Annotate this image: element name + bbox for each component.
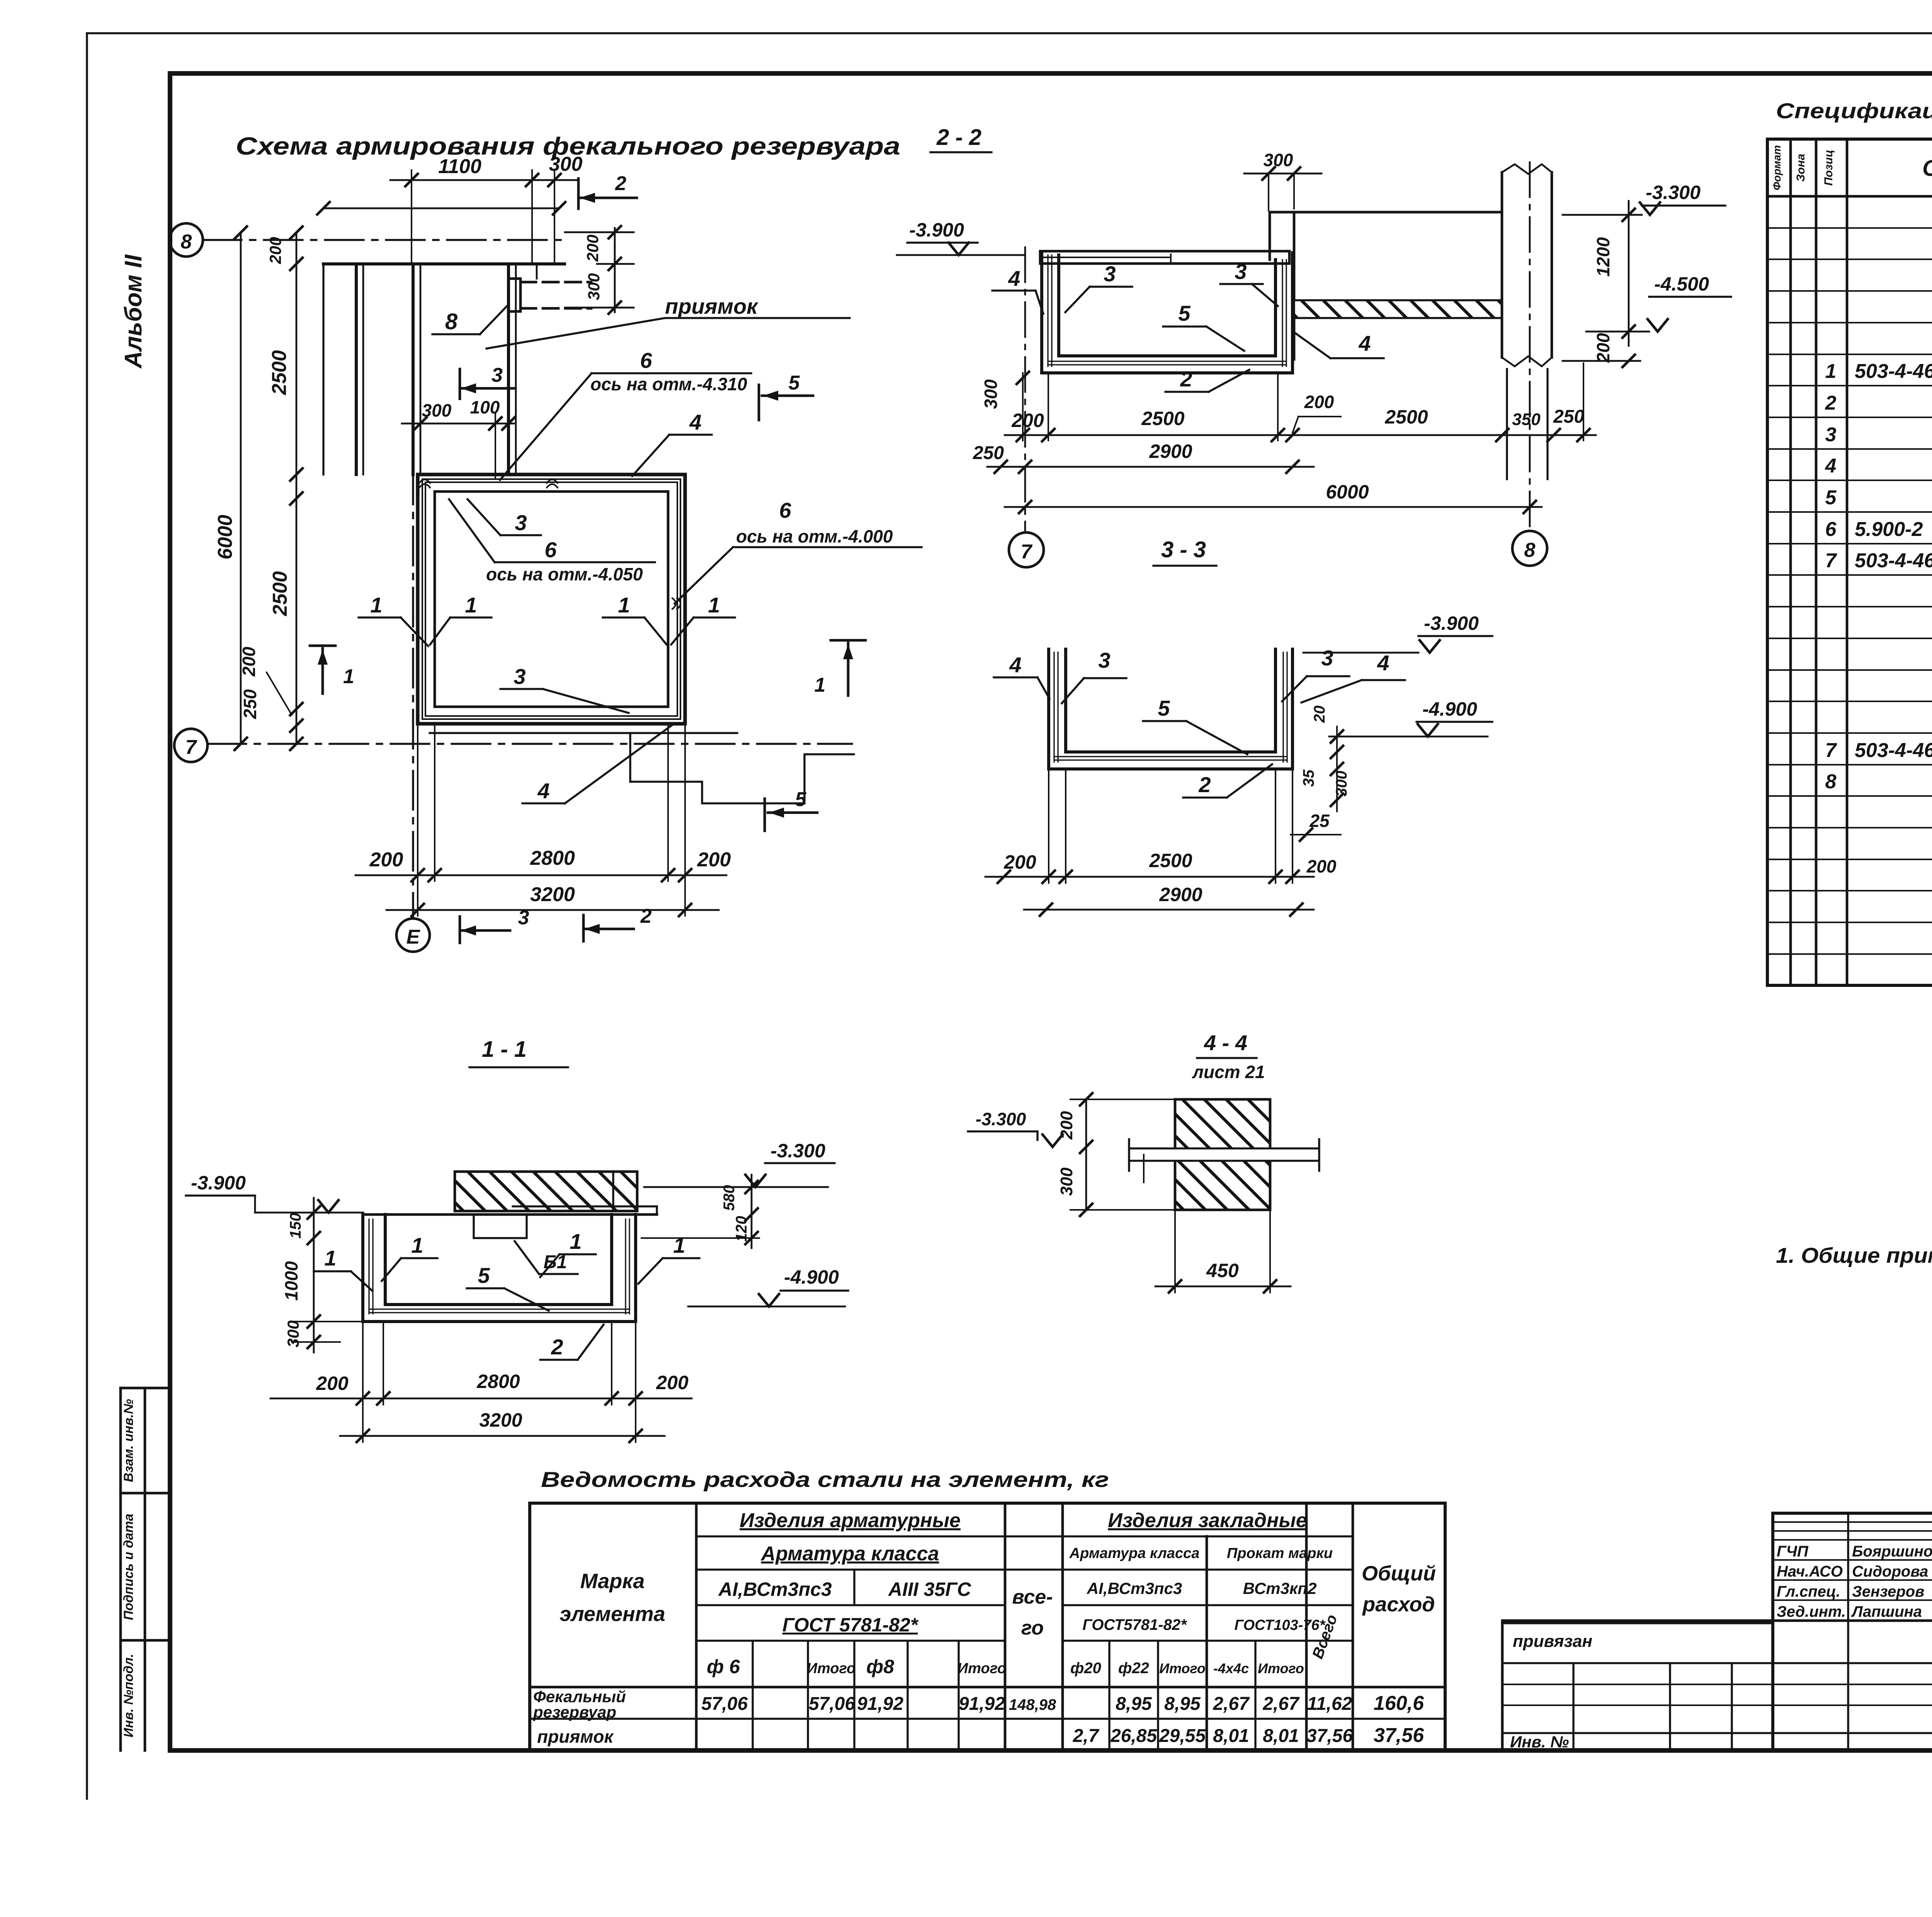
svg-text:1100: 1100 [438,155,481,178]
svg-text:3: 3 [1104,262,1116,286]
svg-text:1: 1 [1825,360,1837,383]
opening notch sec 1-1 [474,1214,527,1238]
svg-text:1: 1 [618,593,630,617]
svg-text:2900: 2900 [1149,441,1192,462]
label 3 plan lower [500,664,629,713]
svg-text:ось на отм.-4.000: ось на отм.-4.000 [736,526,893,546]
svg-text:3: 3 [1098,648,1110,672]
level mark -4.900 sec 1-1 [688,1266,848,1306]
svg-text:8: 8 [181,231,192,253]
svg-text:148,98: 148,98 [1009,1696,1056,1713]
label 3 sec 2-2 right [1220,259,1278,306]
svg-text:-3.900: -3.900 [1424,612,1479,634]
svg-text:2500: 2500 [1384,406,1428,428]
svg-text:7: 7 [185,736,197,759]
svg-text:580: 580 [721,1185,738,1211]
label 4 plan top right [632,410,712,476]
dims 580/120 sec 1-1 [641,1175,759,1248]
label 3 plan upper [468,499,541,535]
svg-text:4: 4 [1825,455,1837,477]
svg-text:29,55: 29,55 [1159,1726,1206,1746]
hatched pier sec 4-4 [1175,1099,1270,1210]
svg-text:1200: 1200 [1593,237,1613,277]
dimension 200/2800/200 sec 1-1 [270,1322,692,1405]
svg-text:Позиц: Позиц [1822,150,1835,186]
svg-text:Арматура класса: Арматура класса [1069,1545,1200,1561]
pit walls plan [323,264,565,475]
label 6 ось на отм.-4.050 [449,499,655,584]
svg-text:приямок: приямок [537,1726,614,1747]
axis circle 7 sec 2-2 [1009,532,1044,567]
svg-text:Спецификация элементов монол: Спецификация элементов монолитного фекал… [1776,99,1932,123]
svg-text:Итого: Итого [807,1660,855,1677]
svg-text:Взам. инв.№: Взам. инв.№ [121,1399,136,1482]
svg-text:1: 1 [465,593,477,617]
label 4 sec 2-2 left [992,266,1043,314]
section mark 5 plan upper [759,372,813,420]
svg-text:26,85: 26,85 [1110,1726,1157,1746]
svg-text:7: 7 [1825,549,1837,572]
svg-text:2500: 2500 [1149,850,1192,871]
hatched block sec 1-1 [455,1172,637,1211]
svg-text:2800: 2800 [476,1371,520,1392]
channel walls sec 3-3 [1049,649,1293,769]
svg-text:1: 1 [673,1233,685,1257]
svg-text:2800: 2800 [530,847,575,869]
svg-text:4: 4 [1008,266,1020,291]
svg-text:250: 250 [240,689,260,719]
label 2 sec 2-2 [1165,367,1249,392]
svg-text:4 - 4: 4 - 4 [1204,1031,1247,1055]
svg-text:3: 3 [518,907,529,929]
labels 1 sec 1-1 [314,1229,699,1291]
dimension 2900 sec 3-3 [1024,884,1314,916]
label 6 ось на отм.-4.000 [675,498,922,604]
svg-text:6: 6 [640,348,652,373]
label приямок [486,294,850,349]
svg-text:2: 2 [640,905,652,927]
svg-text:5.900-2: 5.900-2 [1855,518,1923,541]
label 3 sec 3-3 right [1282,646,1349,701]
title block grid [1502,1513,1932,1750]
svg-text:6: 6 [779,498,791,522]
svg-text:91,92: 91,92 [857,1694,903,1714]
dimension 300 left sec 2-2 [981,372,1029,409]
svg-text:200: 200 [1304,392,1334,412]
steel table grid [530,1503,1445,1750]
svg-text:ГОСТ 5781-82*: ГОСТ 5781-82* [782,1614,919,1636]
svg-text:4: 4 [1009,653,1021,677]
svg-text:Общий: Общий [1362,1562,1436,1585]
svg-text:4: 4 [1358,331,1371,356]
svg-text:-4.900: -4.900 [784,1266,839,1288]
axis circle 8 sec 2-2 [1512,531,1547,566]
dimension 200/300 right of pit [565,226,634,314]
small dims 20/35/300 sec 3-3 [1300,706,1350,811]
level mark -3.300 sec 2-2 [1563,182,1725,215]
spec header texts [1771,145,1932,191]
svg-text:ГЧП: ГЧП [1777,1543,1809,1560]
axis line 7 plan [207,743,852,745]
svg-text:200: 200 [697,849,731,871]
svg-text:200: 200 [1593,333,1613,363]
label 4 sec 3-3 left [994,653,1049,699]
svg-text:6: 6 [544,538,557,562]
svg-text:200: 200 [316,1373,349,1394]
svg-text:1000: 1000 [281,1261,301,1301]
svg-text:7: 7 [1825,739,1837,762]
level mark -3.300 sec 1-1 [644,1140,835,1187]
dimension 300 top of 2-2 [1244,150,1321,211]
section mark 5 plan lower [765,788,817,831]
dimension 200/2800/200 plan bottom [355,724,731,881]
tank section 2-2 walls [1042,253,1293,373]
svg-text:91,92: 91,92 [959,1694,1005,1714]
dimension row 200/2500/200 sec 3-3 [985,769,1337,883]
label 4 plan bottom [522,725,672,803]
svg-text:300: 300 [422,400,452,420]
dimension 1100/300 top [390,153,582,264]
svg-text:ГОСТ5781-82*: ГОСТ5781-82* [1082,1616,1187,1633]
svg-text:Итого: Итого [1159,1660,1206,1676]
svg-text:2500: 2500 [269,571,291,616]
svg-text:Е: Е [406,926,420,948]
svg-text:200: 200 [1003,851,1036,873]
top slab sec 1-1 [363,1206,657,1214]
svg-text:1. Общие примечания смотри: 1. Общие примечания смотри лист 21. [1776,1243,1932,1267]
svg-text:-4.500: -4.500 [1654,273,1709,295]
svg-text:20: 20 [1311,706,1328,723]
tank 2-2 mesh lines [1048,255,1286,366]
svg-text:200: 200 [1011,410,1044,431]
svg-text:ф 6: ф 6 [707,1656,740,1677]
svg-text:расход: расход [1362,1593,1435,1616]
spec table grid [1767,139,1932,985]
section mark 1 arrow left [310,646,354,694]
section title 3-3 [1153,537,1216,566]
svg-text:Подпись и дата: Подпись и дата [121,1514,136,1620]
svg-text:37,56: 37,56 [1374,1724,1424,1747]
svg-text:Обозначение: Обозначение [1922,156,1932,181]
dimension 25 sec 3-3 [1291,811,1341,841]
svg-text:элемента: элемента [560,1602,665,1626]
svg-text:Лапшина: Лапшина [1851,1603,1922,1620]
svg-text:-4.900: -4.900 [1422,698,1477,720]
svg-text:Ведомость расхода стали на: Ведомость расхода стали на элемент, кг [541,1467,1109,1492]
section title 4-4 [1192,1031,1265,1082]
svg-text:ось на отм.-4.310: ось на отм.-4.310 [590,374,747,394]
svg-text:7: 7 [1021,541,1033,563]
svg-text:200: 200 [266,237,284,264]
tank 2-2 top cover [1040,251,1289,264]
svg-text:6000: 6000 [1326,481,1369,503]
dimension line plan second top [317,202,565,214]
svg-text:2 - 2: 2 - 2 [936,125,981,150]
svg-text:150: 150 [287,1213,304,1239]
svg-text:1: 1 [815,674,826,696]
svg-text:5: 5 [1178,301,1190,325]
svg-text:35: 35 [1300,769,1317,787]
svg-text:2500: 2500 [268,350,291,395]
svg-text:-3.900: -3.900 [909,219,964,241]
svg-text:5: 5 [795,788,807,811]
section title 1-1 [469,1037,568,1067]
level mark -4.500 sec 2-2 [1586,273,1731,332]
embedded item MH2 plan [509,279,591,311]
svg-text:5: 5 [1825,486,1837,509]
svg-text:-4х4с: -4х4с [1213,1660,1249,1676]
dimension 3200 plan bottom [386,724,719,916]
svg-text:2500: 2500 [1141,408,1184,429]
svg-text:2: 2 [1198,772,1211,797]
svg-text:Итого: Итого [957,1660,1006,1677]
section title 2-2 [930,125,992,152]
signature table [1773,1513,1932,1750]
svg-text:Зона: Зона [1794,154,1807,182]
level mark -3.900 sec 1-1 [186,1172,363,1213]
axis circle 7 plan [174,729,207,762]
left dims 150/1000/300 sec 1-1 [281,1198,365,1352]
hatched slab 2-2 [1294,300,1502,318]
tank walls sec 1-1 [363,1214,636,1322]
svg-text:2: 2 [551,1335,563,1359]
label 2 sec 3-3 [1183,764,1272,798]
dimension 3200 sec 1-1 [340,1322,665,1442]
dimension 300/100 plan [402,397,515,479]
svg-text:Альбом II: Альбом II [120,254,147,369]
svg-text:8,95: 8,95 [1116,1694,1152,1714]
svg-text:3: 3 [492,364,503,386]
dimension stack 200/2500/200/2500/200/250 vertical [239,226,303,750]
svg-text:300: 300 [1333,771,1350,797]
svg-text:ось на отм.-4.050: ось на отм.-4.050 [486,564,643,584]
dimension 200 sec 2-2 right [1563,333,1640,367]
svg-text:АI,ВСт3пс3: АI,ВСт3пс3 [718,1579,832,1600]
svg-text:200: 200 [583,235,602,262]
tank walls plan [418,475,685,724]
svg-text:11,62: 11,62 [1307,1694,1352,1714]
svg-text:3: 3 [1825,424,1837,446]
svg-text:5: 5 [478,1263,490,1288]
svg-text:6000: 6000 [214,515,236,560]
svg-text:3: 3 [514,664,526,689]
svg-text:АI,ВСт3пс3: АI,ВСт3пс3 [1087,1579,1182,1597]
svg-text:5: 5 [789,372,800,394]
svg-text:503-4-46.87-: 503-4-46.87- [1855,739,1932,762]
svg-text:300: 300 [1057,1167,1076,1196]
axis circle 8 plan [170,223,203,257]
svg-text:250: 250 [973,443,1004,463]
labels 1 plan row [359,593,735,646]
svg-text:2,67: 2,67 [1213,1694,1250,1714]
svg-text:Арматура класса: Арматура класса [760,1543,939,1565]
svg-text:300: 300 [585,273,603,300]
svg-text:503-4-46.87: 503-4-46.87 [1855,360,1932,383]
svg-text:3: 3 [1235,259,1247,284]
svg-text:8,01: 8,01 [1263,1726,1299,1746]
svg-text:3200: 3200 [479,1409,522,1431]
spec rows text [1825,202,1932,982]
svg-text:3 - 3: 3 - 3 [1161,537,1206,562]
svg-text:1: 1 [570,1229,582,1254]
svg-text:-3.300: -3.300 [976,1109,1026,1129]
label 2 sec 1-1 [540,1325,604,1360]
svg-text:Формат: Формат [1771,145,1783,191]
attachment table [1502,1623,1932,1751]
svg-text:Инв. №: Инв. № [1510,1733,1569,1751]
axis line 7 sec 2-2 [1024,247,1026,532]
dimension row2 250/2900 sec 2-2 [973,441,1314,473]
svg-text:все-: все- [1012,1586,1053,1608]
label 5 sec 1-1 [467,1263,549,1311]
svg-text:160,6: 160,6 [1374,1692,1424,1715]
svg-text:200: 200 [369,849,403,871]
svg-text:-3.300: -3.300 [1646,182,1701,203]
svg-text:АIII 35ГС: АIII 35ГС [888,1579,971,1600]
label 4 sec 3-3 right [1301,651,1405,703]
svg-text:200: 200 [1306,856,1337,876]
mesh cross marks plan [419,480,680,609]
svg-text:2,67: 2,67 [1262,1694,1300,1714]
svg-text:6: 6 [1825,518,1837,541]
svg-text:ф22: ф22 [1118,1660,1149,1677]
svg-text:4: 4 [1377,651,1389,675]
bar through pier sec 4-4 [1129,1139,1319,1182]
dimension 6000 sec 2-2 [1005,481,1542,513]
svg-text:Бояршинов: Бояршинов [1852,1543,1932,1560]
svg-text:2: 2 [615,172,626,195]
dimension 6000 vertical [214,226,247,750]
svg-text:привязан: привязан [1513,1632,1592,1651]
svg-text:3: 3 [1321,646,1333,670]
svg-text:Инв. №подл.: Инв. №подл. [121,1654,136,1738]
svg-text:8: 8 [1524,539,1536,561]
dimension row1 sec 2-2 [1005,363,1596,441]
dimension 1200 sec 2-2 [1593,201,1635,346]
drawing frame [170,73,1932,1750]
left stamp column [121,1388,170,1750]
svg-text:Изделия арматурные: Изделия арматурные [740,1509,961,1532]
section mark 1 arrow right [815,640,866,696]
section mark 2 bottom [583,905,652,941]
svg-text:8,95: 8,95 [1164,1694,1201,1714]
svg-text:Гл.спец.: Гл.спец. [1777,1583,1840,1600]
label 3 sec 3-3 left [1062,648,1126,703]
column axis 8 sec 2-2 [1502,164,1552,479]
svg-text:3200: 3200 [530,883,575,906]
svg-text:1: 1 [370,593,382,617]
level mark -4.900 sec 3-3 [1329,698,1492,737]
section mark 3 plan left [460,364,514,399]
svg-text:ф8: ф8 [866,1656,894,1677]
svg-text:ф20: ф20 [1070,1660,1101,1677]
svg-text:1: 1 [411,1233,423,1257]
svg-text:8: 8 [1825,771,1837,793]
svg-text:300: 300 [1264,150,1293,170]
svg-text:2: 2 [1180,367,1192,391]
svg-text:200: 200 [1057,1111,1076,1140]
foundation outline below tank [430,733,854,803]
axis circle E plan [396,919,430,952]
svg-text:4: 4 [537,779,549,803]
label 8 pit [432,306,507,334]
svg-text:1: 1 [343,665,354,688]
svg-text:57,06: 57,06 [701,1694,748,1714]
svg-text:Итого: Итого [1258,1660,1304,1676]
dims 200/300 sec 4-4 [1057,1093,1175,1216]
svg-text:ГОСТ103-76*: ГОСТ103-76* [1235,1617,1326,1633]
svg-text:Прокат марки: Прокат марки [1227,1545,1333,1561]
svg-text:1: 1 [324,1246,336,1270]
svg-text:300: 300 [981,379,1001,409]
svg-text:503-4-46.87: 503-4-46.87 [1855,549,1932,572]
axis line E plan [412,466,414,919]
svg-text:1: 1 [708,593,720,617]
dimension 450 sec 4-4 [1155,1210,1291,1293]
svg-text:37,56: 37,56 [1306,1726,1353,1746]
steel table texts [533,1509,1436,1747]
level mark -3.300 sec 4-4 [968,1109,1063,1147]
svg-text:2900: 2900 [1159,884,1202,905]
svg-text:450: 450 [1206,1260,1239,1281]
label 5 sec 2-2 [1163,301,1244,351]
svg-text:Нач.АСО: Нач.АСО [1777,1563,1843,1580]
svg-text:3: 3 [515,510,527,535]
section mark 2 top [578,172,637,209]
svg-text:Зензеров: Зензеров [1852,1583,1924,1600]
svg-text:Изделия закладные: Изделия закладные [1108,1509,1307,1532]
svg-text:2: 2 [1825,392,1837,414]
svg-text:лист 21: лист 21 [1192,1062,1265,1082]
level mark -3.900 sec 2-2 [897,219,1025,255]
axis line 8 plan [203,239,565,241]
svg-text:1 - 1: 1 - 1 [482,1037,527,1062]
axis line 8 sec 2-2 [1529,162,1531,531]
label Б1 sec 1-1 [515,1241,578,1274]
section mark 3 bottom [460,907,529,943]
svg-text:ВСт3кп2: ВСт3кп2 [1243,1579,1317,1597]
svg-text:Марка: Марка [580,1570,645,1593]
svg-text:200: 200 [239,646,259,677]
svg-text:Сидорова: Сидорова [1852,1563,1928,1580]
mesh sec 1-1 [369,1219,629,1314]
svg-text:8,01: 8,01 [1213,1726,1249,1746]
label 5 sec 3-3 [1143,696,1247,754]
svg-text:го: го [1021,1617,1044,1639]
svg-text:250: 250 [1553,407,1584,427]
svg-text:-3.300: -3.300 [770,1140,825,1162]
svg-text:57,06: 57,06 [809,1694,855,1714]
label 6 ось на отм.-4.310 [500,348,751,480]
label 4 sec 2-2 right [1295,331,1384,358]
svg-text:200: 200 [656,1372,689,1393]
svg-text:резервуар: резервуар [533,1703,616,1721]
svg-text:4: 4 [689,410,701,434]
label 3 sec 2-2 left [1065,262,1132,312]
svg-text:300: 300 [284,1320,302,1347]
svg-text:5: 5 [1158,696,1170,720]
svg-text:приямок: приямок [665,294,759,318]
mesh sec 3-3 [1054,652,1287,762]
pit wall above 2-2 [1270,212,1502,359]
svg-text:350: 350 [1512,410,1541,429]
svg-text:-3.900: -3.900 [191,1172,246,1194]
level mark -3.900 sec 3-3 [1303,612,1492,653]
svg-text:8: 8 [445,309,458,334]
svg-text:Зед.инт.: Зед.инт. [1777,1603,1846,1620]
svg-text:2,7: 2,7 [1073,1726,1100,1746]
